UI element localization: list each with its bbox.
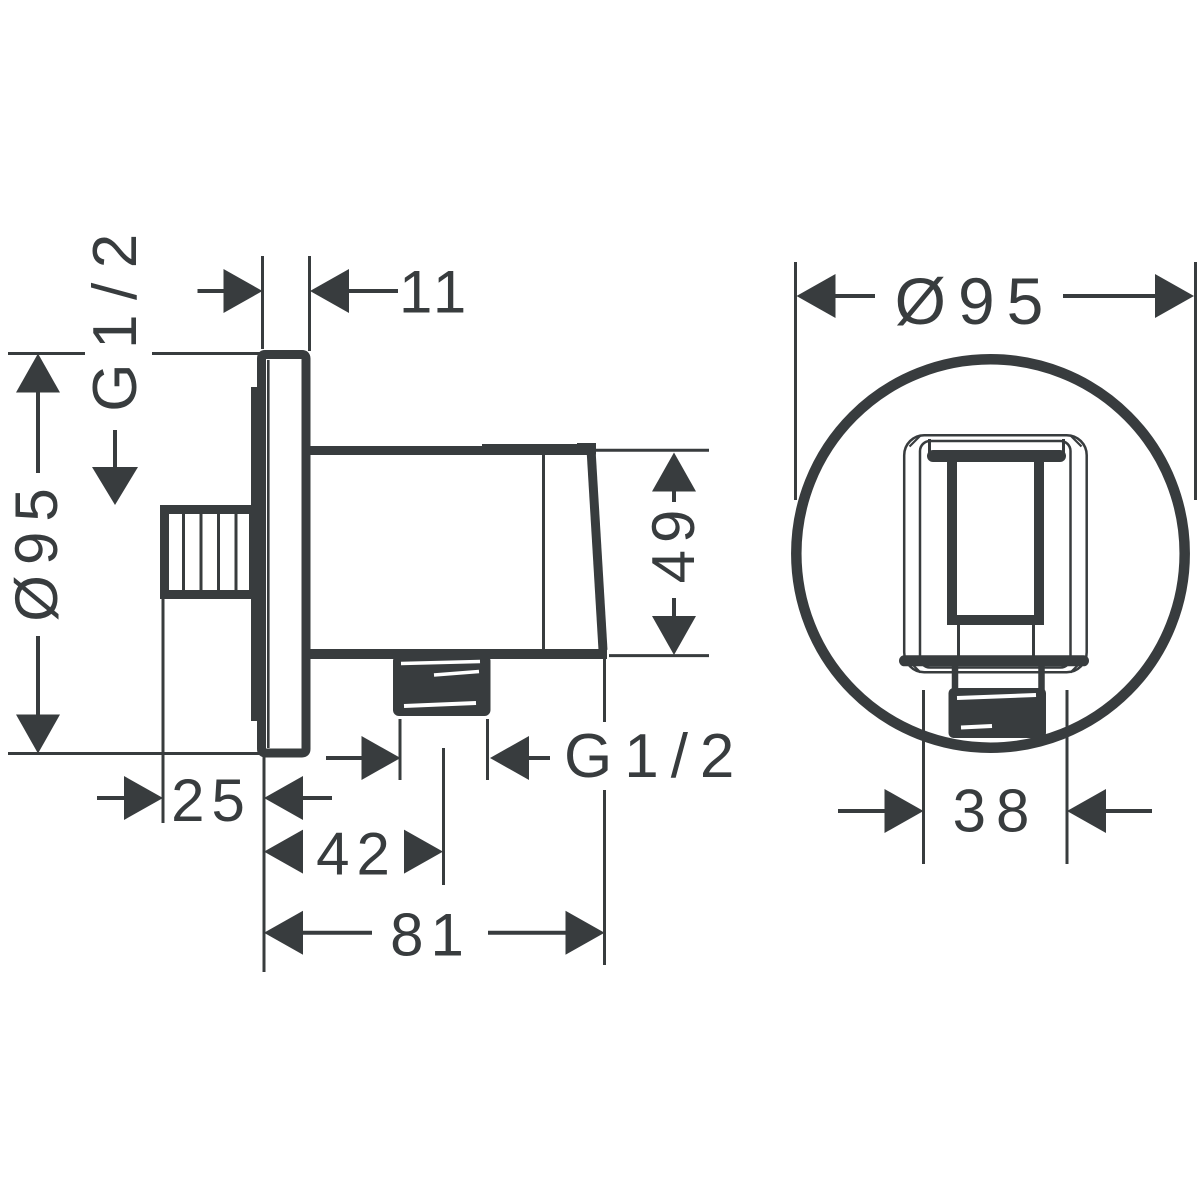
svg-text:25: 25	[171, 767, 252, 834]
svg-text:Ø95: Ø95	[3, 478, 70, 621]
svg-text:11: 11	[399, 259, 471, 326]
svg-text:49: 49	[640, 503, 707, 584]
svg-text:38: 38	[953, 778, 1040, 845]
svg-text:G1/2: G1/2	[81, 219, 150, 411]
svg-text:G1/2: G1/2	[564, 722, 746, 791]
svg-text:42: 42	[316, 821, 397, 888]
svg-text:81: 81	[390, 902, 471, 969]
svg-text:Ø95: Ø95	[895, 264, 1056, 338]
